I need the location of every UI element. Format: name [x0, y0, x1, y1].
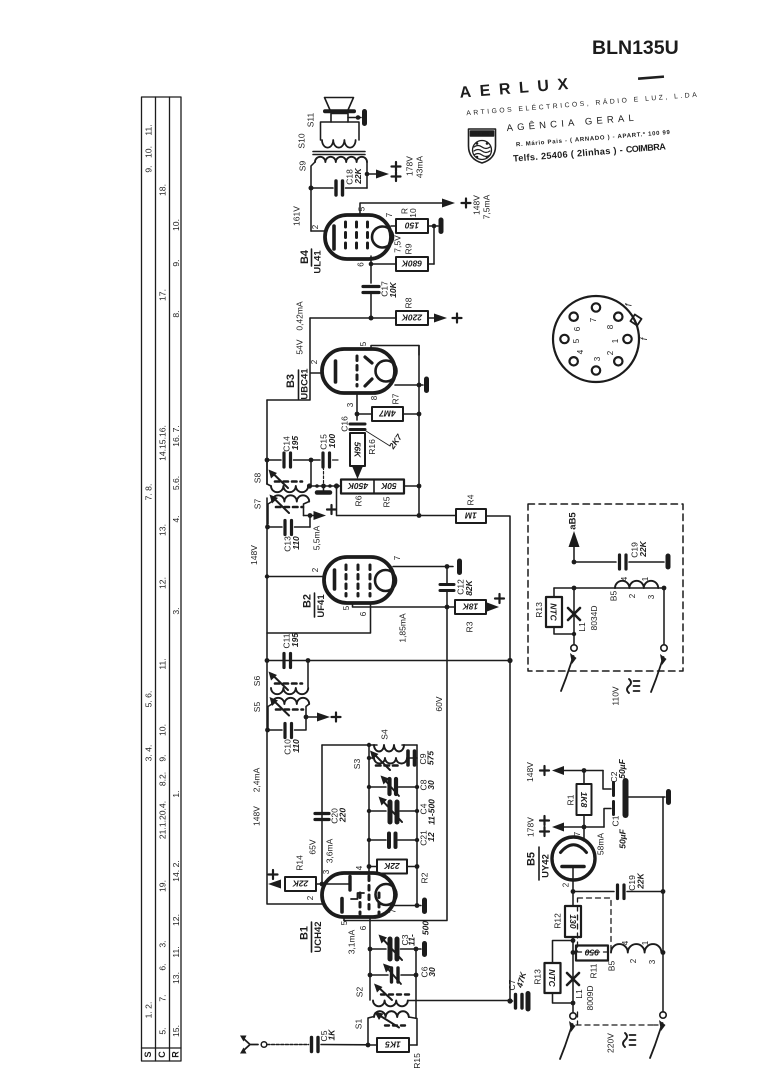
- svg-text:10: 10: [408, 208, 418, 218]
- svg-text:148V: 148V: [251, 806, 261, 826]
- wire R10 to chassis: [428, 225, 438, 227]
- svg-text:13.: 13.: [157, 524, 167, 536]
- socket pin 7: [592, 303, 600, 311]
- resistor R3: [447, 606, 455, 608]
- capacitor C21: [369, 834, 417, 848]
- svg-text:2: 2: [311, 567, 320, 572]
- svg-text:B2: B2: [301, 594, 313, 608]
- electrolytic C2: [612, 783, 615, 796]
- svg-text:NTC: NTC: [549, 603, 559, 621]
- dashed box R11: [578, 898, 612, 952]
- svg-text:17.: 17.: [157, 289, 167, 301]
- svg-text:4: 4: [576, 349, 585, 354]
- label C12 82K: [455, 579, 474, 596]
- svg-text:S6: S6: [252, 676, 262, 687]
- svg-text:11.: 11.: [143, 124, 153, 135]
- resistor R9: [396, 257, 428, 271]
- svg-text:3,6mA: 3,6mA: [324, 838, 334, 863]
- svg-text:3. 4.: 3. 4.: [143, 745, 153, 762]
- resistor R14 with plus arrow: [268, 855, 322, 891]
- socket pin 5: [560, 335, 568, 343]
- wire S8 top feed: [310, 460, 312, 486]
- svg-text:1,85mA: 1,85mA: [397, 613, 407, 643]
- svg-text:7: 7: [389, 908, 398, 913]
- node C17/R8: [369, 316, 374, 321]
- rail 148V left (segment A): [266, 400, 268, 484]
- wire pin7 to R10: [391, 225, 396, 227]
- svg-text:UF41: UF41: [316, 594, 327, 618]
- wire antenna to C5: [267, 1044, 309, 1046]
- svg-text:195: 195: [290, 633, 300, 647]
- svg-text:C1: C1: [610, 815, 620, 826]
- wire grid line B3: [310, 317, 396, 319]
- svg-text:11-500: 11-500: [426, 799, 436, 825]
- wire speaker to chassis: [348, 117, 361, 119]
- front-end rail pin6: [369, 917, 371, 1000]
- resistor R7: [372, 407, 403, 421]
- tube B2 UF41 envelope: [324, 557, 394, 603]
- svg-text:R13: R13: [532, 969, 542, 985]
- svg-text:R3: R3: [464, 621, 474, 632]
- svg-text:100: 100: [327, 434, 337, 448]
- svg-text:1: 1: [641, 576, 650, 581]
- svg-text:4: 4: [621, 940, 630, 945]
- speaker: [325, 98, 355, 123]
- svg-text:22K: 22K: [353, 167, 363, 184]
- svg-text:8.2.: 8.2.: [157, 772, 167, 786]
- svg-text:18K: 18K: [462, 602, 478, 612]
- B3 grid dashes: [356, 356, 359, 386]
- svg-text:14. 2.: 14. 2.: [171, 860, 181, 882]
- svg-text:S5: S5: [252, 702, 262, 713]
- svg-text:B3: B3: [285, 374, 297, 388]
- svg-text:220K: 220K: [401, 313, 423, 323]
- svg-text:2: 2: [311, 224, 320, 229]
- svg-text:6: 6: [573, 326, 582, 331]
- svg-text:50µF: 50µF: [617, 758, 627, 778]
- svg-text:1. 2.: 1. 2.: [143, 1002, 153, 1019]
- svg-text:220V: 220V: [605, 1033, 615, 1053]
- svg-text:680K: 680K: [401, 259, 422, 269]
- capacitor C18: [311, 181, 367, 195]
- svg-text:2: 2: [628, 593, 637, 598]
- stamp AERLUX: [459, 66, 704, 168]
- electrolytic C1: [612, 802, 615, 815]
- wire pin6 B2 down to AVC wire: [267, 603, 371, 633]
- label C14 195: [281, 436, 300, 452]
- rail pin5/detector: [418, 346, 420, 487]
- svg-text:2: 2: [306, 895, 315, 900]
- svg-text:58mA: 58mA: [595, 833, 605, 856]
- top wire osc: [322, 744, 417, 746]
- node S9/C18 junction: [309, 186, 314, 191]
- trimmer C8: [369, 776, 417, 797]
- B1 grid dashes: [360, 876, 379, 914]
- svg-text:3: 3: [593, 356, 602, 361]
- capacitor C17: [363, 287, 379, 319]
- label 178V 43mA: [404, 156, 424, 179]
- transformer secondary S10: [321, 122, 360, 148]
- svg-text:148V: 148V: [249, 545, 259, 565]
- svg-text:14.15.16.: 14.15.16.: [157, 425, 167, 461]
- wire S7 right / 5,5mA arrow: [304, 516, 311, 528]
- svg-text:S10: S10: [296, 133, 306, 148]
- capacitor C20: [315, 814, 329, 820]
- svg-text:10.: 10.: [157, 724, 167, 736]
- B3 tube label: [285, 368, 311, 400]
- svg-text:S7: S7: [252, 499, 262, 510]
- wire pin5 B2 to node: [353, 603, 448, 607]
- labels C2 C1 50uF: [609, 758, 628, 848]
- svg-text:8009D: 8009D: [585, 985, 595, 1010]
- svg-text:148V: 148V: [471, 195, 481, 215]
- svg-text:R1: R1: [565, 794, 575, 805]
- svg-text:S8: S8: [252, 473, 262, 484]
- svg-text:S2: S2: [354, 987, 364, 998]
- svg-text:3,1mA: 3,1mA: [346, 929, 356, 954]
- svg-text:15.: 15.: [171, 1025, 181, 1037]
- svg-text:22K: 22K: [638, 540, 648, 557]
- label C13 110: [282, 536, 301, 552]
- svg-text:3: 3: [322, 869, 331, 874]
- capacitor C10: [268, 717, 306, 738]
- resistor R1: [583, 771, 585, 785]
- coil S5: [268, 697, 309, 730]
- svg-text:7.: 7.: [157, 994, 167, 1001]
- svg-text:R8: R8: [403, 297, 413, 308]
- AVC to front-end wire: [408, 1000, 510, 1002]
- rail 148V (segment B): [267, 498, 322, 904]
- svg-text:2: 2: [562, 882, 571, 887]
- svg-text:50K: 50K: [380, 481, 396, 491]
- B1 cathode bar: [340, 899, 344, 913]
- tube B4 UL41 envelope: [325, 215, 391, 259]
- wiper arrow R16 to pot: [352, 466, 363, 479]
- 110V option dashed box: [528, 504, 683, 671]
- svg-text:950: 950: [585, 948, 599, 958]
- wire rail to B2 pin2: [267, 576, 325, 578]
- svg-text:110V: 110V: [610, 686, 620, 706]
- svg-text:4M7: 4M7: [378, 409, 397, 419]
- resistor R13 NTC (220V): [553, 941, 574, 964]
- socket pin 4: [570, 357, 578, 365]
- svg-text:148V: 148V: [525, 762, 535, 782]
- svg-text:2: 2: [606, 350, 615, 355]
- svg-text:R6: R6: [353, 495, 363, 506]
- chassis ground (C1/C2): [666, 792, 671, 803]
- label C10 110: [282, 739, 301, 755]
- svg-text:130: 130: [568, 914, 578, 928]
- coil S8: [267, 460, 308, 492]
- label 148V 2,4mA: [251, 767, 261, 826]
- B5 tube label: [525, 852, 551, 878]
- svg-text:110: 110: [291, 536, 301, 550]
- svg-text:60V: 60V: [434, 696, 444, 711]
- tube B1 UCH42 envelope: [322, 873, 395, 917]
- wire cathode down: [572, 880, 574, 906]
- wire pin7 B2 to 60V node: [393, 566, 453, 568]
- wire pin5 B4 to 148V: [360, 203, 442, 216]
- variable capacitor C4: [369, 797, 417, 823]
- parts index table S/C/R: [142, 97, 182, 1061]
- svg-text:7: 7: [589, 317, 598, 322]
- chassis stub at pot: [323, 486, 325, 491]
- wire to R7: [357, 413, 372, 415]
- svg-text:4: 4: [620, 576, 629, 581]
- wire R4 to AVC rail: [486, 516, 510, 661]
- wire to B5 anode: [583, 827, 585, 841]
- coil S6: [269, 661, 309, 695]
- svg-text:10.: 10.: [143, 146, 153, 158]
- socket pin 1: [623, 335, 631, 343]
- svg-text:3.: 3.: [157, 940, 167, 947]
- chassis ground (speaker): [362, 112, 367, 124]
- svg-text:12.: 12.: [171, 914, 181, 926]
- svg-text:5: 5: [358, 206, 367, 211]
- svg-text:R15: R15: [412, 1053, 422, 1069]
- svg-text:6: 6: [357, 262, 366, 267]
- svg-text:16. 7.: 16. 7.: [171, 425, 181, 447]
- svg-text:2,4mA: 2,4mA: [251, 767, 261, 792]
- 178V output arrow: [525, 816, 604, 837]
- svg-text:11-: 11-: [406, 934, 416, 946]
- svg-text:30: 30: [426, 780, 436, 790]
- svg-text:150: 150: [405, 221, 419, 231]
- capacitor C11: [284, 654, 291, 668]
- svg-text:S3: S3: [352, 759, 362, 770]
- svg-text:8: 8: [606, 324, 615, 329]
- svg-text:9.: 9.: [143, 165, 153, 172]
- wire pin6 node: [370, 256, 372, 283]
- socket pin 3: [592, 366, 600, 374]
- wire R8 to plus: [428, 317, 434, 319]
- capacitor C12: [440, 567, 454, 608]
- oscillator rail C20: [321, 745, 323, 884]
- B1 anode circle: [376, 884, 397, 905]
- svg-text:1K: 1K: [326, 1029, 336, 1041]
- B2 tube label: [301, 594, 327, 618]
- barretter coil B5' (8034D): [615, 581, 658, 588]
- resistor R15: [366, 1043, 371, 1048]
- B3 diode plates: [365, 357, 372, 386]
- svg-text:11.: 11.: [171, 946, 181, 957]
- B4 anode circle: [372, 227, 393, 248]
- wire mains 110 top: [554, 587, 664, 589]
- svg-text:220: 220: [337, 808, 347, 823]
- svg-text:C: C: [157, 1051, 167, 1058]
- svg-text:10.: 10.: [171, 219, 181, 231]
- svg-text:5: 5: [342, 605, 351, 610]
- svg-text:NTC: NTC: [547, 969, 557, 987]
- B1 tube label: [298, 921, 324, 952]
- wire R10/R9 link: [433, 226, 435, 264]
- svg-text:B4: B4: [299, 249, 311, 264]
- wire to 178V arrow: [367, 173, 376, 175]
- B5 anode arc: [561, 845, 587, 853]
- AVC rail down: [509, 661, 511, 1002]
- wire S5 right / plus arrow: [304, 715, 309, 720]
- wire grid feed into B1: [322, 883, 349, 885]
- svg-text:575: 575: [425, 751, 435, 765]
- svg-text:R7: R7: [390, 393, 400, 404]
- svg-text:195: 195: [290, 436, 300, 450]
- svg-text:3: 3: [346, 402, 355, 407]
- B5 cathode bar: [562, 865, 584, 869]
- capacitor C14: [267, 453, 311, 467]
- svg-text:6: 6: [359, 611, 368, 616]
- svg-text:22K: 22K: [383, 861, 400, 871]
- svg-text:R12: R12: [552, 913, 562, 929]
- capacitor C13: [268, 521, 310, 535]
- svg-text:18.: 18.: [157, 184, 167, 196]
- stamp Philips shield logo: [469, 129, 496, 163]
- socket key tab: [630, 314, 641, 325]
- svg-text:9.: 9.: [157, 754, 167, 761]
- svg-text:UBC41: UBC41: [300, 368, 311, 400]
- trimmer C6: [370, 964, 416, 985]
- svg-text:R2: R2: [419, 872, 429, 883]
- S row numbers: [143, 124, 153, 1018]
- svg-text:UY42: UY42: [541, 854, 552, 878]
- svg-text:6: 6: [359, 925, 368, 930]
- svg-text:S4: S4: [379, 729, 389, 740]
- svg-text:S: S: [143, 1051, 153, 1057]
- svg-text:8034D: 8034D: [589, 605, 599, 630]
- B2 cathode bar: [333, 570, 337, 589]
- coil S1: [368, 1011, 417, 1045]
- svg-text:R14: R14: [294, 855, 304, 871]
- svg-text:R: R: [170, 1051, 180, 1058]
- B2 grid dashes: [346, 565, 370, 596]
- svg-text:0,42mA: 0,42mA: [294, 301, 304, 331]
- svg-text:43mA: 43mA: [414, 156, 424, 179]
- tube B5 UY42 envelope: [552, 837, 595, 880]
- svg-text:10K: 10K: [388, 281, 398, 297]
- label C19 22K (110V): [629, 540, 648, 557]
- svg-text:3: 3: [648, 959, 657, 964]
- svg-text:1: 1: [641, 940, 650, 945]
- wire pot right to rail: [404, 485, 419, 487]
- barretter coil B5' (8009D): [611, 944, 661, 952]
- capacitor C2 lead: [603, 771, 611, 790]
- transformer primary S9: [311, 157, 367, 188]
- svg-text:S1: S1: [353, 1019, 363, 1030]
- svg-text:19.: 19.: [157, 880, 167, 892]
- svg-text:65V: 65V: [307, 839, 317, 854]
- oscillator rails: [368, 745, 370, 873]
- svg-text:2: 2: [629, 958, 638, 963]
- resistor R8: [396, 311, 428, 325]
- svg-text:7: 7: [385, 212, 394, 217]
- svg-text:S9: S9: [297, 161, 307, 172]
- svg-text:5: 5: [359, 341, 368, 346]
- capacitor C16: [350, 424, 365, 430]
- 148V output arrow: [525, 762, 603, 782]
- B1 screen step: [351, 893, 364, 899]
- svg-text:9.: 9.: [171, 259, 181, 266]
- label C18 22K: [344, 167, 363, 184]
- resistor R10: [396, 219, 428, 233]
- svg-text:1: 1: [611, 338, 620, 343]
- svg-text:UCH42: UCH42: [313, 921, 324, 952]
- tube B3 UBC41 envelope: [322, 349, 395, 393]
- svg-text:4.: 4.: [171, 515, 181, 522]
- svg-text:5.6.: 5.6.: [171, 476, 181, 490]
- lamp L1 (220V): [567, 973, 579, 985]
- svg-text:1K5: 1K5: [385, 1040, 401, 1050]
- antenna: [240, 1036, 267, 1054]
- capacitor C15: [311, 453, 338, 467]
- resistor R11: [576, 946, 608, 961]
- capacitor C5: [312, 1038, 369, 1052]
- C row numbers: [157, 184, 167, 1035]
- svg-text:110: 110: [291, 739, 301, 753]
- capacitor C19 (110V): [618, 555, 621, 569]
- AVC wire: [267, 660, 510, 662]
- svg-text:3.: 3.: [171, 607, 181, 614]
- wire rail to R4: [337, 486, 456, 516]
- node C14/C15: [309, 458, 314, 463]
- svg-text:6.: 6.: [157, 963, 167, 970]
- resistor R2: [367, 864, 372, 869]
- socket pin 6: [570, 313, 578, 321]
- label 2K7 with leader: [366, 431, 390, 446]
- svg-text:BLN135U: BLN135U: [592, 37, 679, 59]
- svg-text:3: 3: [647, 594, 656, 599]
- svg-text:B5: B5: [608, 591, 618, 602]
- chassis ground (B1 pin7): [422, 900, 427, 912]
- chassis ground (R10): [439, 220, 444, 232]
- svg-text:30: 30: [427, 967, 437, 977]
- coil S2: [373, 984, 409, 1007]
- svg-text:5.: 5.: [157, 1027, 167, 1034]
- svg-text:12.: 12.: [157, 577, 167, 589]
- wire pin5 B3 to rail: [371, 346, 419, 356]
- wire diode to chassis: [395, 384, 423, 386]
- chassis ground (B3): [424, 379, 429, 391]
- svg-text:B5: B5: [525, 852, 537, 866]
- svg-text:PHILIPS: PHILIPS: [472, 132, 490, 137]
- svg-text:7,5V: 7,5V: [392, 235, 402, 253]
- svg-text:11.: 11.: [157, 658, 167, 669]
- svg-text:8: 8: [370, 395, 379, 400]
- node C13 rail: [265, 525, 270, 530]
- svg-text:B1: B1: [298, 926, 310, 940]
- resistor R16: [350, 433, 365, 466]
- wire common bar to chassis: [629, 796, 666, 798]
- svg-text:178V: 178V: [404, 156, 414, 176]
- svg-text:21.1.20.4.: 21.1.20.4.: [157, 801, 167, 839]
- wire R7 to rail: [403, 413, 419, 415]
- svg-text:13.: 13.: [171, 972, 181, 984]
- B2 anode circle: [375, 570, 396, 591]
- svg-text:8.: 8.: [171, 310, 181, 317]
- mains plug pins 220V: [560, 1012, 666, 1059]
- labels 65V 3,6mA pin3: [307, 838, 334, 874]
- svg-text:56K: 56K: [352, 442, 362, 458]
- resistor R13 NTC (110V): [554, 588, 574, 634]
- label C15 100: [318, 434, 337, 450]
- wire R3 to plus: [487, 603, 499, 612]
- wire HT 110: [574, 561, 616, 563]
- B4 tube label: [299, 249, 324, 274]
- svg-text:R16: R16: [367, 439, 377, 455]
- svg-text:C16: C16: [339, 416, 349, 432]
- socket pin 8: [614, 313, 622, 321]
- rail 60V: [344, 607, 447, 921]
- socket pin 2: [614, 357, 622, 365]
- svg-text:50µF: 50µF: [617, 828, 627, 848]
